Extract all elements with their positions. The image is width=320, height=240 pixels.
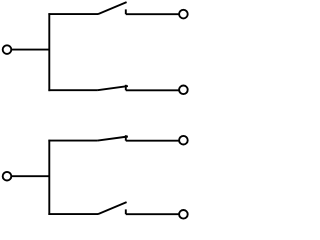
terminal J5 (right, lower group top branch) <box>179 136 188 145</box>
switch S1b fixed contact <box>125 85 127 91</box>
node A vertical bus (upper group) <box>48 13 50 91</box>
terminal J4 (left, lower group) <box>3 172 12 181</box>
switch S2a blade (closed) <box>98 137 128 141</box>
switch S2a fixed contact <box>125 135 127 141</box>
wire S2b contact to terminal J6 <box>126 213 179 215</box>
switch S2b blade (open) <box>98 202 127 214</box>
terminal J3 (right, upper group bottom branch) <box>179 86 188 95</box>
wire bus A to switch S1b pivot <box>48 89 97 91</box>
wire S2a contact to terminal J5 <box>126 140 179 142</box>
terminal J1 (left, upper group) <box>3 45 12 54</box>
switch S1b blade (closed) <box>98 86 128 90</box>
wire J4 to bus B <box>12 175 50 177</box>
terminal J6 (right, lower group bottom branch) <box>179 210 188 219</box>
switch S1a blade (open) <box>98 2 127 14</box>
wire S1b contact to terminal J3 <box>126 89 179 91</box>
switch S1a fixed contact <box>125 9 127 14</box>
wire S1a contact to terminal J2 <box>126 13 179 15</box>
switch S2b fixed contact <box>125 209 127 214</box>
terminal J2 (right, upper group top branch) <box>179 10 188 19</box>
wire bus B to switch S2a pivot <box>48 140 97 142</box>
node B vertical bus (lower group) <box>48 140 50 215</box>
wire J1 to bus A <box>12 49 50 51</box>
wire bus A to switch S1a pivot <box>48 13 98 15</box>
wire bus B to switch S2b pivot <box>48 213 98 215</box>
